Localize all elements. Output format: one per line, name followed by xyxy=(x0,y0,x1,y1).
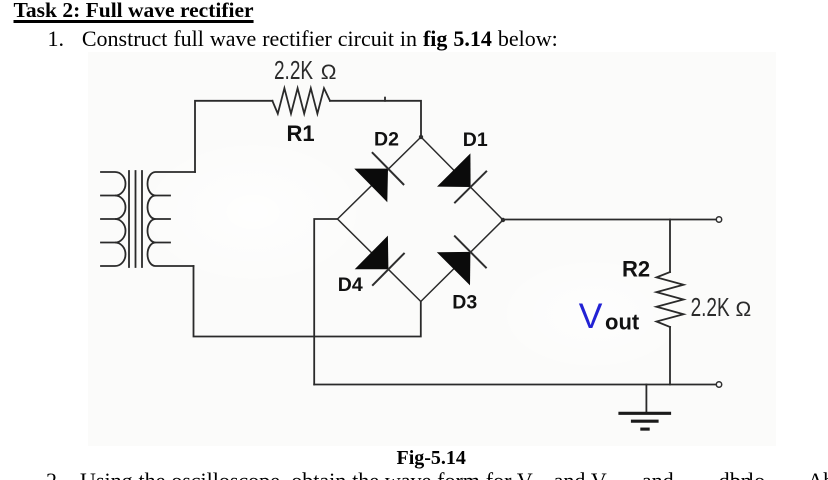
wire: bridge right vertex to output top rail xyxy=(503,219,716,222)
svg-text:D1: D1 xyxy=(463,129,488,151)
label R2 value 2.2K ohm xyxy=(691,293,730,321)
label R1 value 2.2K ohm xyxy=(274,56,313,84)
junction dot top vertex xyxy=(419,135,423,139)
label Vout xyxy=(579,296,640,336)
diode D4 xyxy=(355,236,405,286)
svg-text:D3: D3 xyxy=(452,291,477,313)
svg-text:R2: R2 xyxy=(622,257,650,282)
transformer T1 secondary winding xyxy=(148,172,196,266)
svg-text:D4: D4 xyxy=(338,274,363,296)
svg-text:R1: R1 xyxy=(287,121,315,146)
wire: R1 to bridge top vertex xyxy=(330,101,421,137)
diode D3 xyxy=(437,236,487,286)
scanned photo background tint xyxy=(88,52,776,446)
resistor R2 zigzag xyxy=(657,272,684,327)
wire: bridge left vertex to bottom rail xyxy=(314,219,337,385)
list item 1 xyxy=(48,28,558,50)
resistor R2 branch wire top xyxy=(669,220,671,273)
svg-text:2.2K: 2.2K xyxy=(691,293,730,321)
diode bridge diamond frame xyxy=(338,137,504,302)
svg-text:Ω: Ω xyxy=(321,61,337,84)
junction dot right vertex xyxy=(501,218,505,222)
diode D1 xyxy=(437,153,487,203)
figure caption Fig-5.14 xyxy=(397,448,466,468)
document title xyxy=(14,0,254,22)
resistor R2 branch wire bottom xyxy=(669,327,671,385)
output terminal bottom xyxy=(716,382,721,387)
ground stem xyxy=(645,385,647,412)
svg-text:out: out xyxy=(605,310,640,335)
ground bars xyxy=(618,413,671,429)
wire: secondary bottom to bridge bottom vertex xyxy=(194,266,421,337)
svg-text:V: V xyxy=(579,296,603,336)
transformer T1 primary winding xyxy=(101,172,126,266)
svg-text:Ω: Ω xyxy=(736,298,752,321)
transformer core xyxy=(129,171,142,267)
resistor R1 zigzag xyxy=(272,88,330,114)
output terminal top xyxy=(716,217,721,222)
svg-text:D2: D2 xyxy=(374,128,399,150)
junction nub on top wire xyxy=(384,98,386,101)
svg-text:2.2K: 2.2K xyxy=(274,56,313,84)
wire: secondary top riser to R1 xyxy=(195,101,272,172)
diode D2 xyxy=(354,152,404,202)
bottom output rail xyxy=(314,384,716,386)
list item 2 (cut off at page bottom) xyxy=(719,470,752,480)
